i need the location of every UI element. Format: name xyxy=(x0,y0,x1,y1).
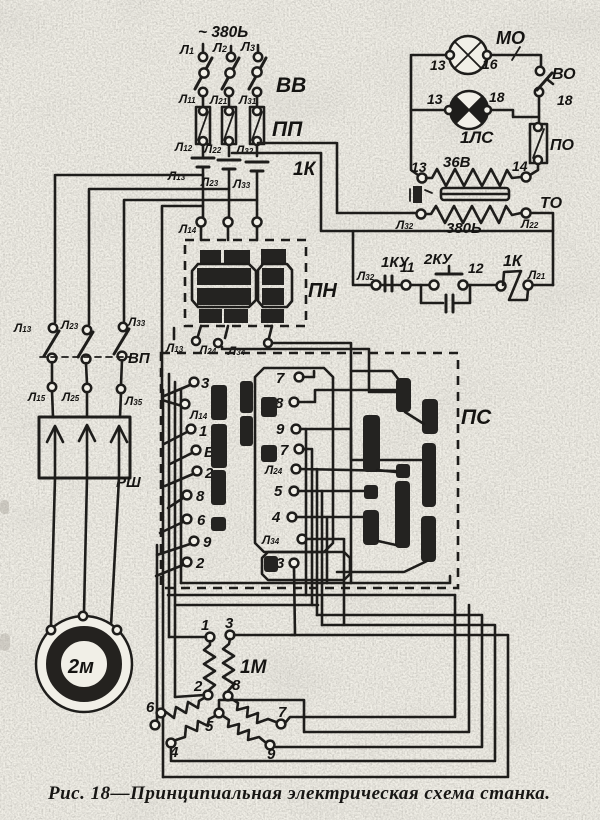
PS contact pad A4 xyxy=(211,517,226,531)
PS middle terminal 8m xyxy=(261,390,396,417)
wire PS inner horizontal y583 xyxy=(181,576,450,583)
svg-text:3: 3 xyxy=(201,375,210,392)
wire second PN terminal into PS xyxy=(222,347,396,392)
wire loop A : 7 to PS xyxy=(285,595,455,723)
wire phase L2 stub xyxy=(212,40,231,55)
switch VP pole 1 xyxy=(13,321,59,404)
winding 1M terminal 1 xyxy=(169,617,214,641)
svg-text:7: 7 xyxy=(276,370,285,387)
svg-text:Рис. 18—Принципиальная электр: Рис. 18—Принципиальная электрическая схе… xyxy=(47,783,550,804)
PN output stubs xyxy=(174,326,272,339)
svg-text:13: 13 xyxy=(411,159,427,175)
PS left terminal 2b xyxy=(156,555,205,576)
svg-text:9: 9 xyxy=(276,421,285,438)
node 11 xyxy=(400,259,415,290)
node 4 xyxy=(167,739,179,761)
svg-text:6: 6 xyxy=(146,699,155,716)
svg-text:ВП: ВП xyxy=(128,350,151,367)
label PP xyxy=(272,118,303,141)
wire 1LS left xyxy=(411,109,445,112)
node ~380V supply label xyxy=(198,24,248,41)
svg-text:МО: МО xyxy=(496,28,525,48)
RSh pole 1 wires and arrow xyxy=(47,391,63,625)
label BB xyxy=(276,74,306,97)
contactor contact 1K pole 3 xyxy=(246,162,268,218)
wire into PN pin 2 xyxy=(224,218,233,241)
svg-text:6: 6 xyxy=(197,512,206,529)
wire PS inner horizontal y595 xyxy=(168,594,455,597)
wire L13 to VP switch xyxy=(55,175,203,322)
PS right bar R1b xyxy=(395,481,410,548)
wire L22 to transformer primary and control bus xyxy=(232,153,553,285)
PS left terminal 8 xyxy=(168,488,205,508)
button 2KU (start) xyxy=(411,251,468,290)
PS center bar M1 xyxy=(363,415,380,472)
svg-text:16: 16 xyxy=(482,56,498,72)
PS contact bar A2 xyxy=(211,424,227,468)
svg-text:36В: 36В xyxy=(443,154,471,171)
node labels L13 L23 L33 xyxy=(167,169,251,191)
PS right bar R2b xyxy=(422,443,436,507)
svg-text:1: 1 xyxy=(201,617,209,634)
svg-text:ТО: ТО xyxy=(540,195,563,212)
wire into PN pin 1 xyxy=(178,218,206,241)
svg-text:1М: 1М xyxy=(240,657,268,678)
svg-text:2: 2 xyxy=(193,678,203,695)
winding 1M terminal 3 xyxy=(225,615,234,639)
wire L23 to VP switch xyxy=(89,189,229,324)
PS lower plate outline xyxy=(262,552,350,580)
fuse PO xyxy=(530,123,575,164)
winding 1M phase coil 3-8 xyxy=(223,639,234,691)
RSh pole 2 wires and arrow xyxy=(79,392,95,612)
svg-text:ВО: ВО xyxy=(552,66,576,83)
PS middle terminal 7b xyxy=(261,442,312,605)
svg-text:380Ь: 380Ь xyxy=(446,220,482,237)
PS left terminal L14 xyxy=(181,400,208,422)
wire L32 to transformer primary xyxy=(258,143,415,213)
wire into PN pin 3 xyxy=(253,218,262,241)
PS left terminal 6b xyxy=(160,512,206,533)
PN right contact plate xyxy=(258,264,292,307)
PS middle contact plate outline xyxy=(255,368,333,552)
wire phase L1 stub xyxy=(179,42,203,57)
holding contact parallel branch xyxy=(421,285,470,312)
wire L14 left bus down xyxy=(162,206,203,406)
node labels L12 L22 L32 xyxy=(174,140,254,157)
node 6 xyxy=(146,699,165,729)
wire 1LS right to fuse node xyxy=(491,110,539,117)
PS left terminal 2a xyxy=(165,465,214,486)
svg-text:1К: 1К xyxy=(503,253,523,270)
svg-text:ПО: ПО xyxy=(550,137,575,154)
PS middle terminal L24 xyxy=(264,463,396,615)
transformer TO core xyxy=(410,186,509,203)
svg-text:13: 13 xyxy=(427,91,443,107)
breaker BB pole 2 xyxy=(222,53,239,106)
breaker BB pole 3 xyxy=(249,53,266,106)
svg-text:7: 7 xyxy=(280,442,289,459)
lamp 1LS xyxy=(427,89,505,147)
PS left bus wires xyxy=(157,374,181,777)
svg-text:9: 9 xyxy=(203,534,212,551)
PS left terminal 9 xyxy=(157,534,212,555)
svg-text:8: 8 xyxy=(232,677,241,694)
node L21 xyxy=(524,268,554,290)
PS right bar R2c xyxy=(421,516,436,562)
svg-text:5: 5 xyxy=(274,483,283,500)
switch VP pole 2 xyxy=(60,318,93,404)
svg-text:4: 4 xyxy=(271,509,281,526)
node 5 center xyxy=(205,709,223,735)
wire loop E : outer loop from terminal 3 xyxy=(163,635,508,777)
wire control tap down xyxy=(353,231,371,285)
svg-text:ВВ: ВВ xyxy=(276,74,306,97)
winding coil 5-9 xyxy=(223,716,265,742)
svg-text:1К: 1К xyxy=(293,159,317,180)
svg-text:2м: 2м xyxy=(67,656,94,678)
winding coil 5-4 xyxy=(176,716,215,740)
node labels L11 L21 L31 xyxy=(178,92,257,107)
wire loop C : 9 to PS xyxy=(276,615,482,747)
svg-text:ПН: ПН xyxy=(308,280,337,302)
node 8 xyxy=(224,677,241,700)
svg-text:1ЛС: 1ЛС xyxy=(460,128,494,147)
RSh pole 3 wires and arrow xyxy=(111,393,127,626)
lamp MO xyxy=(430,28,525,74)
winding 1M phase coil 1-2 xyxy=(204,641,215,690)
contactor contact 1K pole 1 xyxy=(192,158,214,218)
wire bottom bus y605 xyxy=(175,604,318,607)
transformer TO primary winding 380V xyxy=(395,195,563,237)
PS middle terminal 4m xyxy=(271,509,363,583)
PS contact bar B1 xyxy=(240,381,253,413)
label 1M xyxy=(240,657,268,678)
switch VP pole 3 xyxy=(114,315,146,408)
svg-text:2: 2 xyxy=(195,555,205,572)
PS middle terminal 9m xyxy=(276,421,421,595)
fuse PP pole 3 xyxy=(250,107,264,156)
PS left terminal 6a xyxy=(170,444,215,464)
PN left contact plate xyxy=(192,264,256,307)
PS left terminal 1 xyxy=(164,423,207,444)
wire link M1-P1 xyxy=(377,470,396,472)
PS right bar R2a xyxy=(422,399,438,434)
svg-text:ПС: ПС xyxy=(461,406,492,429)
wire link M2-R1b xyxy=(378,541,396,545)
wire from PN terminal right into PS xyxy=(272,343,399,583)
PS dashed border xyxy=(161,353,492,588)
PS right bar R1a xyxy=(396,378,411,412)
scan smudge left edge xyxy=(0,500,10,651)
transformer TO secondary winding 36V xyxy=(411,154,531,186)
PS middle terminal 7a xyxy=(276,370,314,387)
node L32 control xyxy=(356,269,381,290)
wire PO to winding 36V xyxy=(530,164,538,175)
contactor contact 1K pole 2 xyxy=(218,160,240,218)
wire link R1a-R2a xyxy=(405,412,424,424)
button 1KU (stop) xyxy=(381,254,411,291)
node 12 xyxy=(468,260,506,291)
svg-text:ПП: ПП xyxy=(272,118,303,141)
caption xyxy=(47,783,550,804)
svg-text:2КУ: 2КУ xyxy=(423,251,454,268)
PS middle terminal 3m xyxy=(264,555,298,635)
PN output terminals row xyxy=(165,337,272,358)
wire L33 to VP switch xyxy=(124,200,257,321)
svg-text:7: 7 xyxy=(278,704,287,721)
label 1K main contacts xyxy=(293,159,317,180)
wire loop D : 4 to PS xyxy=(171,625,495,761)
PS right pad P1 xyxy=(396,464,410,478)
wire 3 to coil terminal xyxy=(291,634,295,637)
svg-text:3: 3 xyxy=(225,615,234,632)
switch VO xyxy=(535,66,576,108)
PS contact bar A1 xyxy=(211,385,227,420)
PN block dashed border xyxy=(185,240,337,326)
node 9 xyxy=(266,741,276,763)
coil 1K xyxy=(503,253,528,300)
VP mechanical link dashed xyxy=(40,350,151,367)
PS contact bar B2 xyxy=(240,416,253,446)
svg-text:11: 11 xyxy=(400,259,415,275)
svg-text:18: 18 xyxy=(557,92,573,108)
plug connector RSh box xyxy=(39,417,141,491)
fuse PP pole 2 xyxy=(222,107,236,156)
wire from R2c bottom left xyxy=(337,561,427,572)
svg-text:14: 14 xyxy=(512,158,528,174)
PS center bar M2 xyxy=(363,510,379,545)
svg-text:18: 18 xyxy=(489,89,505,105)
PS middle terminal L34 xyxy=(261,533,344,625)
svg-text:8: 8 xyxy=(196,488,205,505)
breaker BB pole 1 xyxy=(195,53,212,106)
PN pins row 1 xyxy=(200,249,286,265)
PS middle terminal 5m xyxy=(274,483,364,625)
PN pins row 3 xyxy=(199,309,284,323)
svg-text:1: 1 xyxy=(199,423,207,440)
PS center pad P2 xyxy=(364,485,378,499)
svg-text:12: 12 xyxy=(468,260,484,276)
node 2 xyxy=(175,678,212,699)
fuse PP pole 1 xyxy=(196,107,210,156)
wire lamp rail left xyxy=(411,55,446,175)
node 7 xyxy=(277,704,287,728)
winding coil 8-7 xyxy=(232,699,276,723)
PS contact bar A3 xyxy=(211,470,226,505)
wire loop B : star point 5 to PS xyxy=(219,605,469,732)
wire phase L3 stub xyxy=(240,39,258,54)
svg-text:13: 13 xyxy=(430,57,446,73)
wire VO down to fuse PO xyxy=(538,96,541,124)
wire MO to VO xyxy=(491,55,541,67)
motor 2M xyxy=(36,612,132,712)
winding coil 2-6 xyxy=(166,698,204,718)
PS left terminal 3 xyxy=(164,375,210,396)
